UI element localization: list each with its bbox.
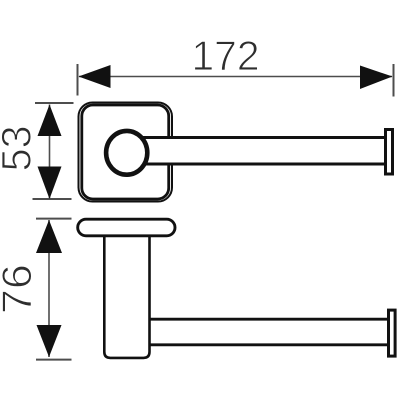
dimension 172: dimension line	[79, 76, 392, 78]
top view: roll bar white fill	[127, 139, 386, 163]
dimension 53: top extension tick	[35, 102, 74, 104]
front view: arm top line	[150, 318, 389, 321]
svg-text:76: 76	[0, 264, 40, 314]
front view: post outline (open at top)	[104, 237, 149, 358]
dimension 172: right extension tick	[393, 64, 395, 97]
dimension 76: dimension line	[48, 220, 50, 357]
top view: wall plate outer outline	[79, 103, 173, 202]
dimension 53: bottom extension tick	[33, 198, 72, 200]
dimension 76: bottom extension tick	[36, 359, 72, 361]
top view: wall plate inner outline	[82, 105, 169, 199]
dimension 172: left arrowhead	[79, 65, 111, 88]
dimension 53: down arrowhead	[38, 167, 62, 200]
top view: mounting post circle	[106, 131, 147, 175]
dimension 53: dimension line	[49, 105, 51, 199]
dimension 76: top extension tick	[36, 218, 72, 220]
dimension 172: left extension tick	[77, 64, 79, 96]
dimension 76: down arrowhead	[37, 325, 62, 357]
dimension 76: up arrowhead	[36, 220, 62, 253]
front view: arm bottom line	[150, 343, 389, 346]
front view: wall plate (stadium shape)	[78, 219, 175, 236]
top view: bar end cap	[386, 130, 393, 175]
front view: arm end cap	[389, 310, 396, 356]
dimension 172: right arrowhead	[360, 66, 393, 90]
svg-text:172: 172	[192, 32, 260, 79]
svg-text:53: 53	[0, 125, 40, 171]
dimension 53: up arrowhead	[38, 105, 62, 137]
top view: roll bar bottom line	[128, 163, 386, 166]
top view: roll bar top line	[128, 136, 386, 139]
